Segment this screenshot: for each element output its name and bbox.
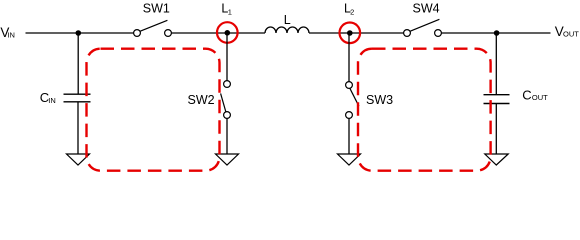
capacitor COUT — [484, 95, 510, 104]
label SW2 — [188, 93, 215, 107]
wire output node down to COUT — [495, 33, 497, 94]
node L2 red highlight circle — [340, 23, 361, 44]
label SW4 — [413, 1, 440, 15]
label CIN — [40, 90, 56, 105]
switch SW2 — [221, 81, 231, 119]
label L1 — [221, 1, 231, 16]
svg-text:SW3: SW3 — [366, 93, 393, 107]
svg-text:SW2: SW2 — [188, 93, 215, 107]
svg-text:C: C — [522, 87, 531, 102]
wire SW2 to ground — [226, 118, 228, 154]
wire SW4 to VOUT — [442, 32, 551, 34]
svg-text:2: 2 — [350, 7, 354, 16]
boost leg highlight box (red dashed) — [358, 49, 491, 171]
wire SW3 to ground — [348, 118, 350, 154]
label COUT — [522, 87, 548, 102]
ground under SW3 — [338, 154, 361, 165]
switch SW4 — [404, 19, 442, 36]
node input junction — [76, 30, 82, 36]
wire VIN to SW1 — [26, 32, 134, 34]
wire COUT to ground — [495, 104, 497, 154]
ground under SW2 — [216, 154, 239, 165]
svg-text:IN: IN — [7, 30, 14, 39]
node L1 red highlight circle — [217, 22, 238, 43]
buck leg highlight box (red dashed) — [87, 49, 220, 171]
label L2 — [344, 1, 354, 16]
svg-text:1: 1 — [228, 7, 232, 16]
label SW3 — [366, 93, 393, 107]
wire SW1 to inductor — [172, 32, 266, 34]
wire inductor to SW4 — [309, 32, 404, 34]
wire L1 node down to SW2 — [226, 33, 228, 81]
svg-text:SW4: SW4 — [413, 1, 440, 15]
node VIN label — [0, 25, 15, 40]
node VOUT label — [555, 24, 580, 39]
svg-text:OUT: OUT — [563, 30, 579, 39]
svg-text:IN: IN — [48, 96, 56, 105]
ground under COUT — [485, 154, 508, 165]
label SW1 — [143, 1, 170, 15]
node L2 junction — [347, 30, 353, 36]
inductor L — [265, 27, 309, 33]
switch SW1 — [134, 20, 172, 36]
wire L2 node down to SW3 — [348, 33, 350, 82]
label L — [284, 13, 291, 27]
node output junction — [494, 30, 500, 36]
wire CIN to ground — [77, 102, 79, 154]
switch SW3 — [346, 82, 359, 119]
ground under CIN — [67, 154, 90, 165]
node L1 junction — [225, 30, 231, 36]
svg-text:SW1: SW1 — [143, 1, 170, 15]
wire input node down to CIN — [77, 33, 79, 94]
capacitor CIN — [64, 94, 91, 102]
svg-text:OUT: OUT — [532, 93, 548, 102]
svg-text:L: L — [284, 13, 291, 27]
